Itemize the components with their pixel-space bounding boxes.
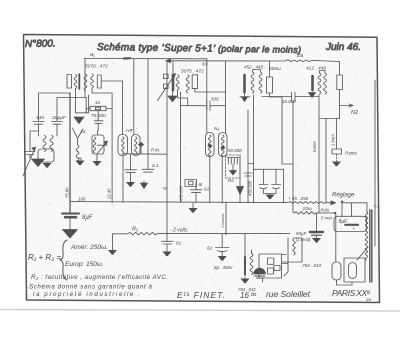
ground choke <box>240 279 249 284</box>
wire w3 bottom h y93 <box>92 88 112 93</box>
T1 core bar <box>78 74 80 89</box>
svg-text:trame: trame <box>312 141 317 152</box>
ground C4 <box>126 182 135 187</box>
det ground small <box>232 164 234 171</box>
osc slug rect <box>192 75 197 89</box>
ground L3 <box>92 161 101 166</box>
C6 stem <box>166 234 168 251</box>
reglage stem <box>341 202 343 217</box>
bus end arrowhead <box>331 201 336 205</box>
wire bus1 to V1b <box>133 59 135 135</box>
ecap merge wire <box>263 190 276 195</box>
wire v x57 to C2 <box>56 98 58 122</box>
wire v x148 from bus1 <box>147 59 149 170</box>
wire L2 to ground <box>78 151 82 160</box>
capacitor C2 30µµF <box>52 122 63 125</box>
svg-text:50µF: 50µF <box>296 231 307 236</box>
node a2 blob <box>124 57 130 59</box>
svg-text:50.000: 50.000 <box>228 148 242 153</box>
svg-text:450.000: 450.000 <box>247 180 252 196</box>
reglage dot <box>341 201 343 203</box>
wire N2 branch <box>340 104 354 107</box>
svg-text:100: 100 <box>78 197 86 202</box>
svg-text:75.80: 75.80 <box>65 187 70 198</box>
wire HT vertical right <box>374 80 376 246</box>
wire v x226 bus to -2V <box>225 203 227 234</box>
hum resistor box <box>332 149 342 154</box>
hum stem <box>336 119 338 150</box>
wire w1 bottom down <box>75 89 77 114</box>
svg-text:61: 61 <box>176 241 182 247</box>
long v x253.5 <box>253 95 255 203</box>
variable capacitor CV1 stem <box>29 131 31 158</box>
svg-text:Schéma donné sans garantie: Schéma donné sans garantie quant à <box>29 284 153 291</box>
svg-text:Juin 46.: Juin 46. <box>325 42 361 53</box>
svg-text:a₁: a₁ <box>90 52 95 58</box>
wire v x319 long <box>318 95 320 213</box>
wire AVC h <box>76 112 89 114</box>
rect tube pill <box>332 262 341 280</box>
R3 bottom wire <box>339 90 341 119</box>
svg-text:450.000: 450.000 <box>179 185 184 201</box>
filter cap 8uF plates <box>62 213 79 215</box>
svg-text:H₮: H₮ <box>126 128 133 134</box>
speaker pin sq b <box>268 268 274 274</box>
volume wire v x248 <box>248 110 254 203</box>
diag wire tube to T3 <box>357 247 368 260</box>
svg-text:6.1: 6.1 <box>152 163 159 169</box>
svg-text:N°800.: N°800. <box>25 38 56 50</box>
L1 shield box <box>38 149 54 162</box>
R2 bottom wire <box>270 93 293 164</box>
wire reglage to T3 <box>342 203 367 217</box>
ecap B stem <box>275 169 277 184</box>
svg-text:61: 61 <box>207 246 213 252</box>
resistor vert zigzag <box>293 238 296 255</box>
switch contact square a <box>164 74 169 79</box>
resistor R1 box <box>90 106 106 110</box>
-2V bus with R5 zigzag <box>113 232 291 235</box>
osc section winding b <box>186 75 189 93</box>
R3 top wire <box>339 62 341 76</box>
node diamond PM <box>139 143 144 147</box>
antenna coil L1 winding a <box>43 136 46 152</box>
osc top hooks <box>253 70 261 73</box>
wire L1 box to ground <box>46 162 48 163</box>
choke bar <box>244 257 246 275</box>
svg-text:8µF: 8µF <box>82 215 93 221</box>
capacitor C7 <box>207 101 210 111</box>
main HT bus <box>70 202 331 204</box>
svg-text:30µµF: 30µµF <box>52 115 67 121</box>
ground L2 <box>75 161 84 166</box>
svg-text:N3: N3 <box>202 62 208 67</box>
T3 core bars <box>370 210 372 282</box>
ground CV1 big <box>32 159 45 167</box>
wire T2L down to bus <box>209 157 211 203</box>
wire gap C7 <box>210 105 225 107</box>
osc trimmer bar <box>172 76 175 91</box>
T2 diamond left <box>208 144 212 147</box>
ground 8uF big <box>63 230 78 239</box>
T1 winding 1 <box>74 75 77 89</box>
speaker hatch <box>255 276 266 278</box>
osc3 winding a <box>318 73 321 94</box>
wire slugR to grid cap <box>101 80 122 82</box>
CV1 plates <box>25 152 35 155</box>
svg-text:600ω: 600ω <box>269 66 281 72</box>
wire polar to rect tube <box>335 213 337 262</box>
tube V1 envelope right pill <box>132 135 141 156</box>
svg-text:16 ᵇˢ: 16 ᵇˢ <box>240 291 257 300</box>
wire P.M. line <box>122 153 167 155</box>
osc winding b <box>259 72 262 93</box>
wire v x206.5 bus1 down <box>206 59 208 133</box>
svg-text:Ra: Ra <box>228 178 234 183</box>
svg-text:5075 . 472: 5075 . 472 <box>181 69 204 75</box>
coil L2 winding <box>76 145 79 161</box>
transformer T3 winding <box>365 212 367 260</box>
svg-text:10.000: 10.000 <box>282 99 296 104</box>
hum dashes to ground <box>336 154 338 161</box>
cap C8 above bus <box>190 190 202 193</box>
capacitor C4 <box>125 170 137 173</box>
wire h y97.5 <box>57 97 86 99</box>
svg-text:F mot: F mot <box>321 216 332 221</box>
osc3 top hook <box>320 71 326 74</box>
svg-text:Pola: Pola <box>321 208 330 213</box>
V1b inner winding <box>135 137 137 154</box>
junction dot x226 <box>225 233 227 235</box>
svg-text:1a: 1a <box>80 129 86 135</box>
svg-text:Rante: Rante <box>345 151 358 156</box>
svg-text:la propriété industrielle .: la propriété industrielle . <box>33 291 140 298</box>
svg-text:.784 . 043: .784 . 043 <box>301 263 322 268</box>
twin electrolytic top wire <box>254 168 284 170</box>
resistor R2 osc <box>267 77 273 93</box>
wire v x187 <box>187 98 189 106</box>
T1 slug right <box>97 75 101 88</box>
CV1 arrow <box>23 147 36 176</box>
wire C11 stem top <box>221 234 223 247</box>
C8 stem <box>195 182 197 203</box>
junction dot polar <box>334 212 336 214</box>
bus a1 (top horizontal wire) <box>84 58 207 60</box>
wire L3 to ground <box>96 154 98 161</box>
wire v x173 osc pad <box>172 61 174 75</box>
ground below bus x193 <box>192 203 194 208</box>
svg-text:8µF: 8µF <box>339 219 349 225</box>
T2 diamond right <box>221 146 225 149</box>
svg-text:Europ: 150ω.: Europ: 150ω. <box>65 261 104 268</box>
wire 8uF to ground <box>69 217 71 229</box>
L3 winding <box>93 137 96 153</box>
capacitor C1 <box>33 122 44 125</box>
wire -2V corner down <box>112 234 114 250</box>
padder arrow <box>309 93 316 98</box>
wire T2R down <box>221 157 223 204</box>
svg-text:22.40: 22.40 <box>107 188 112 200</box>
paper tint <box>24 35 380 303</box>
wire long v x167 <box>166 61 168 234</box>
wire R1 loop <box>86 109 112 114</box>
coupling cap C10 <box>292 92 296 101</box>
resistor R3 <box>337 75 343 90</box>
osc tuning bar 2 <box>243 75 246 92</box>
choke wire from -2v <box>245 234 252 257</box>
scan noise <box>25 37 378 302</box>
speaker box <box>259 254 282 278</box>
ecap A stem <box>262 169 264 184</box>
det cap b <box>233 158 239 165</box>
ground -2V corner <box>108 250 117 255</box>
output choke winding <box>250 254 253 275</box>
svg-text:N₅: N₅ <box>214 126 219 132</box>
padder bar x312 <box>311 76 314 90</box>
svg-text:R₂ : facultative , augmente l’: R₂ : facultative , augmente l’efficacité… <box>31 274 168 281</box>
AVC arrow <box>74 117 84 124</box>
pot box <box>334 216 367 231</box>
wire V1 pill L down to bus <box>122 156 124 203</box>
svg-text:R₅: R₅ <box>132 227 139 233</box>
svg-text:Amér: 250ω.: Amér: 250ω. <box>70 244 108 251</box>
R2 top wire <box>269 61 271 77</box>
bus 2a (second top wire) <box>166 60 340 62</box>
ground C6 <box>162 252 171 257</box>
cap C11 -2V x222 <box>216 248 230 252</box>
svg-text:5070 . 472: 5070 . 472 <box>85 64 108 70</box>
svg-text:8µ′. 450v: 8µ′. 450v <box>214 265 233 270</box>
IF transformer T1 slug left <box>67 75 72 89</box>
T2 winding right <box>219 133 228 157</box>
T1 winding 2 <box>84 74 87 91</box>
detector V symbol <box>73 128 84 145</box>
V1 inner winding <box>122 137 124 154</box>
wire h y105.5 <box>181 105 207 107</box>
resistor box 8i <box>185 180 197 187</box>
svg-text:500: 500 <box>211 97 219 102</box>
svg-text:P.M.: P.M. <box>151 148 160 154</box>
wire long screen v x70 <box>69 93 71 213</box>
50uF stem top <box>316 213 318 231</box>
det current arrow <box>237 187 244 195</box>
wire grid double <box>86 95 88 113</box>
ecap B plates <box>272 185 281 189</box>
svg-text:61: 61 <box>204 187 210 193</box>
output tube box <box>344 258 365 282</box>
C10 wires <box>262 96 319 98</box>
svg-text:452 . 440: 452 . 440 <box>244 65 264 70</box>
border frame <box>24 35 380 303</box>
svg-text:R₁ + R₂ =: R₁ + R₂ = <box>28 253 61 262</box>
osc winding bottom wires <box>178 89 226 98</box>
svg-text:rue Soleillet: rue Soleillet <box>266 289 311 299</box>
svg-text:140: 140 <box>36 115 44 121</box>
C11 ground stem <box>221 251 223 256</box>
wire v x122.5 to tube V1 <box>122 81 124 135</box>
cap C6 on -2V <box>162 241 174 244</box>
svg-text:- 2 volts: - 2 volts <box>170 228 188 234</box>
capacitor C13 avc <box>94 111 103 135</box>
wire C2 to coil box <box>56 124 58 136</box>
speaker pin sq a <box>268 258 274 264</box>
speaker right pin <box>274 266 280 271</box>
detector dotted box <box>226 155 240 178</box>
svg-text:N2: N2 <box>351 110 358 116</box>
pot plate 8uF <box>345 224 358 226</box>
svg-text:1.mache: 1.mache <box>221 213 225 228</box>
svg-text:1 tram: 1 tram <box>330 134 335 146</box>
svg-text:2a: 2a <box>296 53 303 59</box>
50uF stem bottom <box>316 235 318 238</box>
osc winding a <box>251 72 254 93</box>
50uF plate <box>310 231 323 233</box>
ground L1 <box>42 163 51 168</box>
tube V1 envelope left pill <box>118 135 128 156</box>
wire v x283.6 <box>283 169 285 202</box>
ecap A plates <box>259 185 268 189</box>
wire diamond stem <box>140 147 142 154</box>
osc section winding a <box>176 75 179 90</box>
wire h y118.5 <box>319 118 340 120</box>
switch contact square b <box>164 84 169 89</box>
variable capacitor arrow CV2 <box>97 141 107 153</box>
arrow above bus <box>143 181 145 183</box>
wire C1 split <box>30 130 39 132</box>
det cap a <box>227 158 233 165</box>
svg-text:2a: 2a <box>365 297 372 302</box>
output tube pill <box>349 263 357 279</box>
choke ground dash <box>244 275 246 279</box>
det output line <box>239 155 241 203</box>
osc coil L3 box <box>92 135 104 154</box>
svg-text:PARIS XXᵉ: PARIS XXᵉ <box>332 288 371 298</box>
svg-text:41: 41 <box>95 100 101 106</box>
brace <box>60 240 67 280</box>
wire v x326 <box>325 119 327 204</box>
ground ecaps <box>265 195 274 200</box>
R1 inner stripe <box>96 107 101 109</box>
ground hum <box>332 162 341 167</box>
wire long v x112 <box>111 93 113 203</box>
trimmer plate CV2 <box>98 144 108 146</box>
svg-text:T.1: T.1 <box>374 204 380 209</box>
cap C9 <box>244 173 252 176</box>
ground osc arrow <box>172 90 174 96</box>
bus2 start arrowhead <box>166 59 171 63</box>
svg-text:Eᵗˢ FINET.: Eᵗˢ FINET. <box>177 290 225 300</box>
wire C1 to coil box <box>38 124 40 136</box>
T1 winding 3 <box>91 74 94 88</box>
wire v x293 <box>292 101 294 213</box>
osc3 winding b <box>324 73 327 94</box>
svg-text:+ 45 . 250: + 45 . 250 <box>288 196 309 201</box>
ground C11 <box>218 256 227 261</box>
wire bus1 grid vertical <box>84 59 86 98</box>
svg-text:Réglage: Réglage <box>332 193 355 199</box>
polar resistor zigzag <box>294 212 335 215</box>
speaker magnet dome <box>254 268 266 274</box>
wire bend <box>282 238 303 262</box>
svg-text:+: + <box>353 226 356 231</box>
bottom hooks <box>337 280 353 285</box>
speaker wires right <box>263 238 289 282</box>
ground 50uF <box>312 238 321 243</box>
IF transformer T2 winding left <box>206 133 215 157</box>
svg-text:10ω: 10ω <box>303 206 312 212</box>
wire h y93 left <box>39 92 71 94</box>
antenna coil L1 winding b <box>50 136 53 152</box>
wire v x181 <box>180 92 182 203</box>
capacitor C5 <box>142 169 154 172</box>
paper edge shadow line <box>0 310 400 312</box>
wire v x38.5 to C1 <box>38 93 40 121</box>
osc2 arrow <box>240 92 250 97</box>
wire v x225.5 bus2 down <box>225 61 227 133</box>
wire C4 stem <box>130 154 132 182</box>
osc tuning diagonal arrow <box>158 74 176 101</box>
